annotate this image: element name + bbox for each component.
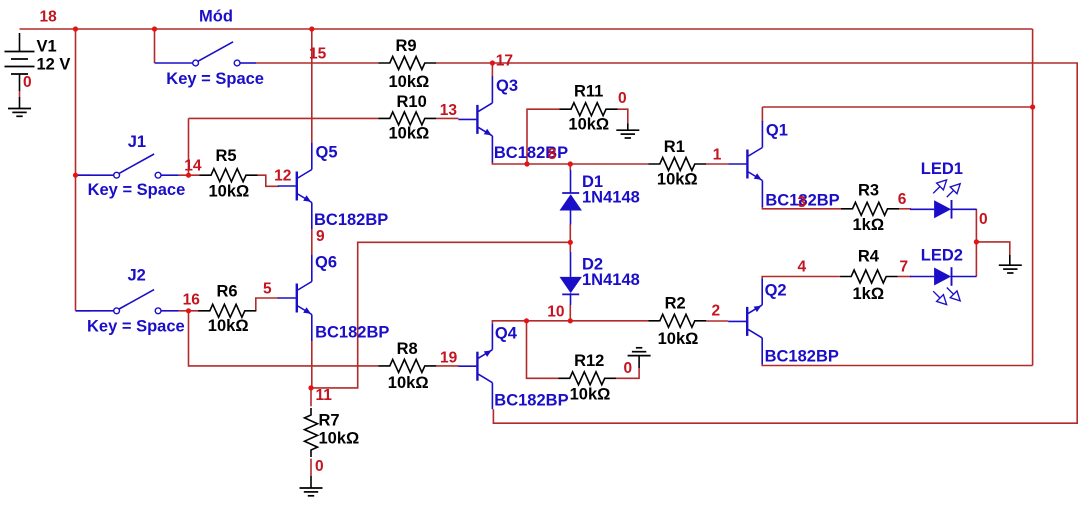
svg-text:BC182BP: BC182BP bbox=[765, 348, 839, 366]
svg-text:Q6: Q6 bbox=[315, 254, 337, 272]
svg-text:10kΩ: 10kΩ bbox=[657, 171, 698, 189]
svg-text:10kΩ: 10kΩ bbox=[389, 125, 430, 143]
svg-text:7: 7 bbox=[900, 259, 909, 276]
svg-text:10kΩ: 10kΩ bbox=[209, 183, 250, 201]
svg-text:10kΩ: 10kΩ bbox=[568, 116, 609, 134]
svg-text:Q2: Q2 bbox=[765, 282, 787, 300]
svg-text:10kΩ: 10kΩ bbox=[389, 73, 430, 91]
svg-text:14: 14 bbox=[184, 158, 202, 175]
svg-text:10: 10 bbox=[547, 303, 564, 320]
svg-text:17: 17 bbox=[496, 53, 513, 70]
svg-text:R7: R7 bbox=[319, 411, 340, 429]
svg-text:0: 0 bbox=[618, 90, 627, 107]
svg-text:16: 16 bbox=[183, 292, 201, 309]
svg-text:10kΩ: 10kΩ bbox=[319, 430, 360, 448]
svg-text:LED1: LED1 bbox=[921, 160, 963, 178]
svg-text:R6: R6 bbox=[217, 283, 238, 301]
svg-text:BC182BP: BC182BP bbox=[315, 323, 389, 341]
svg-text:8: 8 bbox=[548, 146, 557, 163]
svg-text:Key = Space: Key = Space bbox=[88, 181, 186, 199]
svg-text:0: 0 bbox=[624, 360, 633, 377]
svg-text:Mód: Mód bbox=[199, 8, 233, 26]
svg-text:R10: R10 bbox=[397, 93, 427, 111]
svg-text:12: 12 bbox=[274, 168, 291, 185]
svg-text:R9: R9 bbox=[396, 37, 417, 55]
svg-text:Q4: Q4 bbox=[495, 325, 518, 343]
svg-text:R4: R4 bbox=[858, 247, 880, 265]
svg-text:Q5: Q5 bbox=[316, 144, 338, 162]
svg-text:1kΩ: 1kΩ bbox=[853, 285, 885, 303]
svg-text:BC182BP: BC182BP bbox=[494, 144, 568, 162]
svg-text:5: 5 bbox=[263, 281, 272, 298]
svg-text:J1: J1 bbox=[128, 133, 146, 151]
svg-text:18: 18 bbox=[40, 9, 58, 26]
svg-text:0: 0 bbox=[315, 458, 324, 475]
svg-text:12 V: 12 V bbox=[37, 55, 71, 73]
svg-text:1kΩ: 1kΩ bbox=[853, 216, 885, 234]
svg-text:J2: J2 bbox=[128, 267, 146, 285]
svg-text:Q1: Q1 bbox=[766, 122, 788, 140]
svg-text:BC182BP: BC182BP bbox=[314, 211, 388, 229]
svg-text:R2: R2 bbox=[665, 295, 686, 313]
svg-text:R12: R12 bbox=[574, 352, 604, 370]
svg-text:Key = Space: Key = Space bbox=[87, 318, 185, 336]
svg-text:3: 3 bbox=[798, 194, 807, 211]
svg-text:2: 2 bbox=[712, 303, 721, 320]
svg-text:R3: R3 bbox=[858, 182, 879, 200]
svg-text:Key = Space: Key = Space bbox=[166, 70, 264, 88]
svg-text:13: 13 bbox=[440, 102, 458, 119]
svg-text:0: 0 bbox=[23, 74, 32, 91]
svg-text:1N4148: 1N4148 bbox=[582, 189, 640, 207]
svg-text:0: 0 bbox=[979, 211, 988, 228]
svg-text:R5: R5 bbox=[216, 147, 237, 165]
svg-text:R1: R1 bbox=[664, 138, 685, 156]
svg-text:10kΩ: 10kΩ bbox=[388, 374, 429, 392]
svg-text:R11: R11 bbox=[574, 82, 603, 100]
svg-text:6: 6 bbox=[898, 191, 907, 208]
svg-text:1N4148: 1N4148 bbox=[582, 271, 640, 289]
svg-text:10kΩ: 10kΩ bbox=[658, 330, 699, 348]
svg-text:LED2: LED2 bbox=[921, 247, 963, 265]
svg-text:Q3: Q3 bbox=[496, 77, 518, 95]
svg-text:10kΩ: 10kΩ bbox=[570, 386, 611, 404]
svg-text:19: 19 bbox=[440, 349, 458, 366]
svg-text:BC182BP: BC182BP bbox=[494, 391, 568, 409]
svg-text:9: 9 bbox=[316, 228, 325, 245]
svg-text:1: 1 bbox=[713, 146, 722, 163]
svg-text:V1: V1 bbox=[37, 38, 57, 56]
svg-text:R8: R8 bbox=[397, 340, 418, 358]
svg-text:4: 4 bbox=[798, 259, 807, 276]
svg-text:11: 11 bbox=[316, 387, 333, 404]
svg-text:10kΩ: 10kΩ bbox=[208, 317, 249, 335]
svg-text:15: 15 bbox=[309, 45, 327, 62]
